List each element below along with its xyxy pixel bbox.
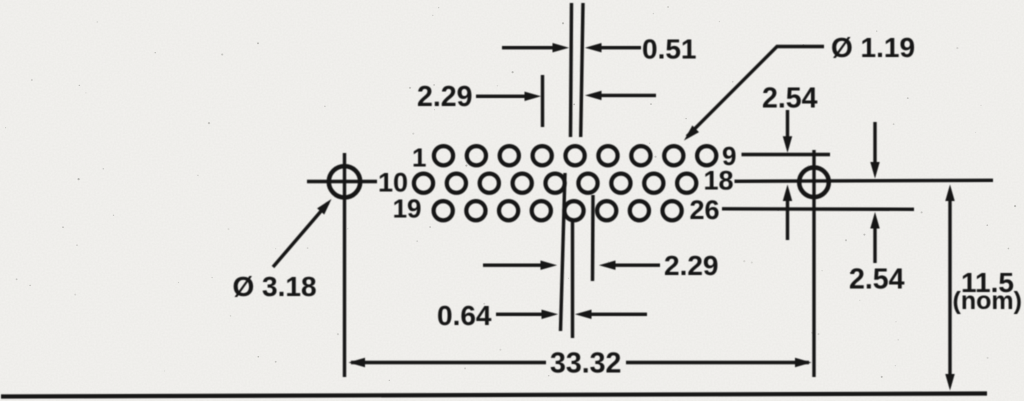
dim 0.64 right arrow — [587, 313, 647, 316]
svg-text:18: 18 — [704, 166, 734, 196]
svg-text:2.29: 2.29 — [664, 250, 719, 281]
svg-text:2.54: 2.54 — [849, 264, 905, 296]
dim 2.54 top up arrow stem — [786, 195, 789, 240]
pin row 1 holes 1-9 — [434, 146, 716, 165]
bottom panel edge line — [1, 394, 987, 397]
svg-text:Ø 1.19: Ø 1.19 — [831, 32, 915, 63]
dim 0.51 left arrow — [502, 46, 556, 49]
svg-text:(nom): (nom) — [953, 287, 1022, 315]
pin row 2 holes 10-18 — [414, 174, 696, 193]
centerline through row2/row3 — [561, 173, 566, 331]
svg-text:2.54: 2.54 — [762, 83, 818, 115]
svg-text:19: 19 — [393, 194, 422, 224]
svg-text:0.64: 0.64 — [437, 300, 492, 331]
leader dia 3.18 — [273, 203, 328, 267]
row1 pin 9 leader line — [742, 153, 831, 156]
mounting hole right circle — [799, 168, 829, 198]
dim 33.32 line left — [351, 361, 546, 364]
leader dia 1.19 — [687, 47, 824, 137]
svg-text:2.29: 2.29 — [417, 81, 472, 113]
dim 33.32 line right — [626, 361, 809, 364]
centerline pair top (pin slot) — [571, 3, 572, 137]
dim 2.29 top right arrow — [598, 94, 656, 97]
dim 0.64 left arrow — [496, 313, 546, 316]
mounting hole right crosshair vertical / extension line — [812, 150, 815, 377]
svg-text:33.32: 33.32 — [550, 348, 621, 380]
row3 pin 26 leader line — [722, 207, 914, 211]
mounting hole left circle — [329, 166, 360, 197]
svg-text:0.51: 0.51 — [642, 34, 697, 65]
dim 2.29 bottom right arrow — [611, 264, 660, 267]
dim 2.29 bottom left arrow — [483, 264, 545, 267]
svg-text:Ø 3.18: Ø 3.18 — [233, 271, 317, 302]
svg-text:26: 26 — [690, 195, 720, 225]
mounting hole left crosshair vertical / extension line — [343, 153, 346, 377]
row2 pin 18 leader line long — [735, 180, 994, 181]
svg-text:1: 1 — [412, 143, 426, 173]
arrowheads — [553, 43, 570, 52]
centerline below row3 — [571, 221, 574, 338]
dim 2.54 bottom up arrow stem — [873, 223, 876, 263]
extension tick for 2.29 top — [541, 75, 544, 127]
dim 0.51 right arrow — [597, 46, 641, 49]
dim 2.29 top left arrow — [476, 95, 530, 98]
dim 11.5 line — [948, 195, 951, 379]
dim 2.54 bottom down arrow stem — [873, 122, 876, 167]
mounting hole left crosshair horizontal — [307, 180, 377, 183]
dim 2.54 top down arrow stem — [786, 110, 789, 141]
extension tick for 2.29 bottom — [591, 195, 595, 281]
pin row 3 holes 19-26 — [434, 201, 682, 220]
